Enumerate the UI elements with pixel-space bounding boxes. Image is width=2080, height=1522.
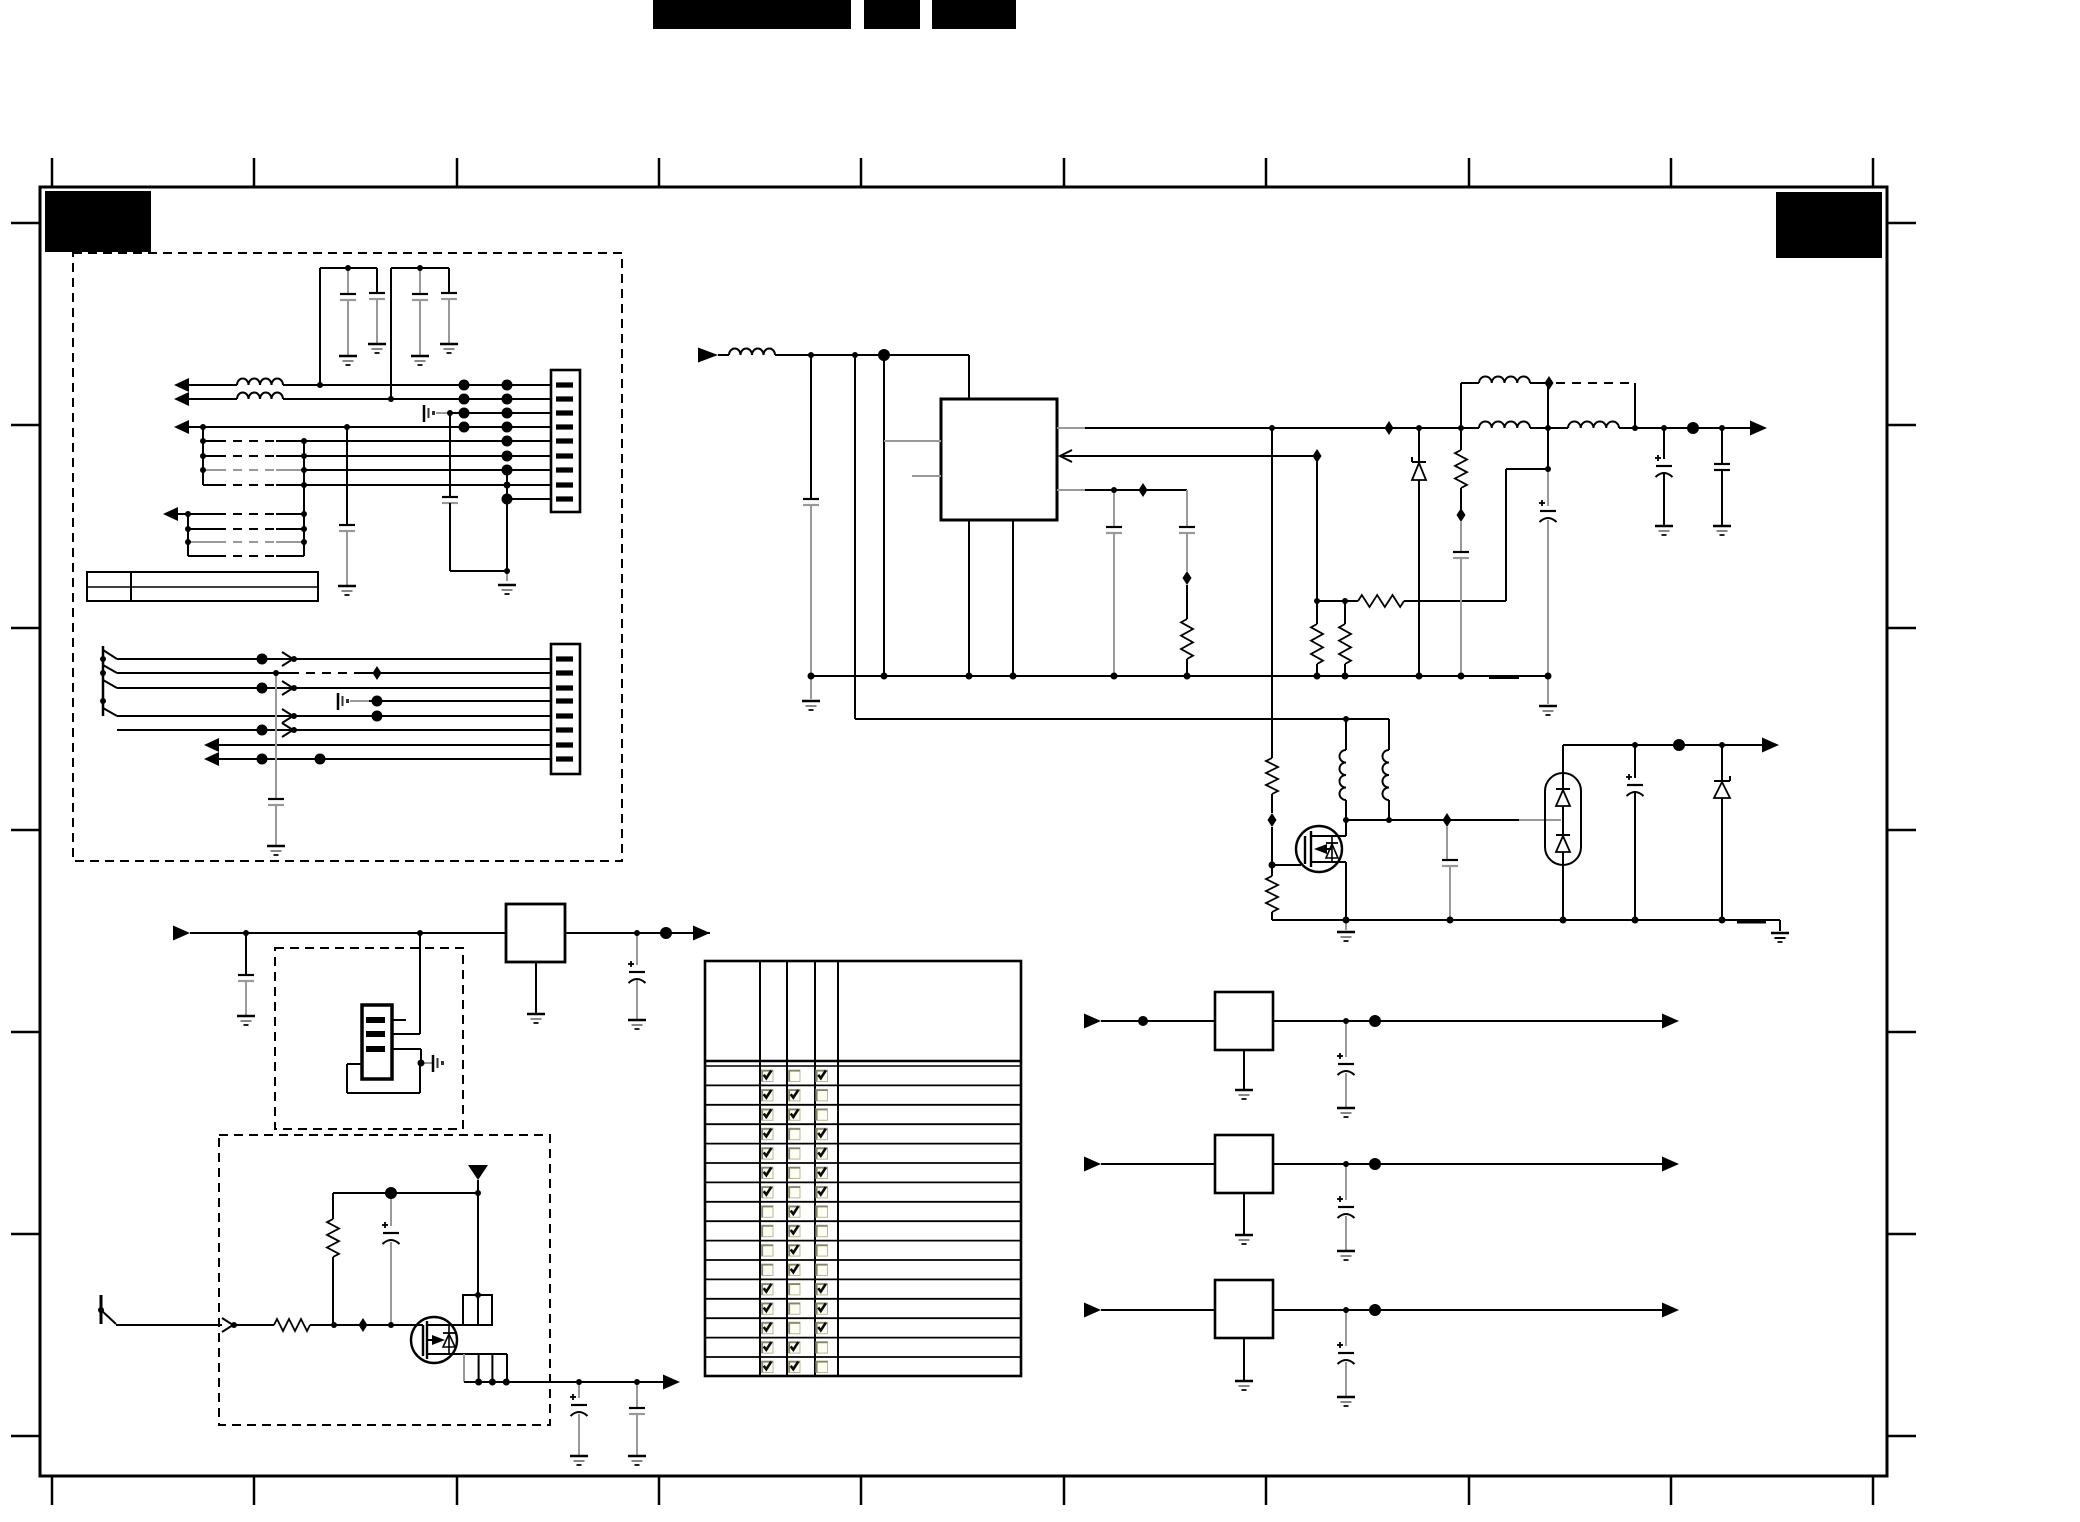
regulator reg5v box [1215, 992, 1273, 1050]
keypad pin1 stub [392, 1019, 406, 1021]
node row19 [257, 725, 268, 736]
inductor L-row2 [237, 393, 283, 400]
capacitor C-row3 [449, 413, 451, 497]
tap row18 [282, 709, 293, 723]
node row17 [372, 696, 383, 707]
wire gate link [1271, 827, 1273, 865]
wire U1 feedback [1060, 455, 1317, 457]
resistor R-sig [274, 1319, 310, 1331]
junction mid top [1545, 425, 1551, 431]
node row2 a [459, 394, 470, 405]
Q1 gate wire [1272, 864, 1301, 866]
capacitor C-snub [1460, 522, 1462, 552]
wire row1 [189, 384, 237, 386]
node row21 a [257, 754, 268, 765]
junction reg3v3 cap [1343, 1161, 1349, 1167]
feedback divider drop [1316, 456, 1318, 601]
aux rail wire [855, 718, 1389, 720]
arrow reg1v8-in [1084, 1303, 1101, 1318]
drain rail [1346, 819, 1519, 821]
harness bracket [102, 646, 105, 716]
net diamond snub [1457, 508, 1466, 522]
output rail switch [464, 1381, 663, 1383]
Q1 arrow [1314, 844, 1327, 854]
U3 diode 2 [1556, 834, 1570, 836]
wire reg1v8 input [1101, 1309, 1215, 1311]
ground col507 [506, 571, 508, 581]
wire row3 cap to gnd [450, 570, 507, 572]
chassis ground keypad [421, 1062, 432, 1064]
ground C-reg-in [237, 1015, 255, 1018]
page border frame [40, 187, 1887, 1476]
arrow reg-out [693, 926, 710, 941]
ground C-out2 [1713, 525, 1731, 528]
U1 gnd pins [968, 520, 970, 676]
standby output rail [1563, 744, 1762, 746]
junction sig b [388, 1322, 394, 1328]
wire aux corner [1388, 719, 1390, 750]
ground C-reg5v [1337, 1107, 1355, 1110]
net diamond drain [1443, 813, 1452, 827]
chassis ground row3 [423, 405, 426, 422]
node row1 a [459, 380, 470, 391]
arrow reg3v3-out [1662, 1157, 1679, 1172]
Q1 channel bar [1310, 831, 1312, 867]
wire row6 dashed [203, 455, 217, 457]
ground cap C-B1 [411, 355, 429, 358]
wire cap-bank A drop [319, 268, 321, 385]
bus vertical mid rows [303, 441, 305, 556]
node reg5v out [1369, 1015, 1381, 1027]
ground cap C-A2 [368, 343, 386, 346]
capacitor C-out2 [1721, 428, 1723, 464]
capacitor C-out1 [1663, 428, 1665, 459]
node row1 b [502, 380, 513, 391]
net diamond Lf [1545, 376, 1554, 390]
capacitor C-stby [1634, 745, 1636, 778]
bus stub vertical rows4-8 [202, 427, 204, 485]
junction fbdiv [1314, 598, 1320, 604]
junction stby diode [1719, 742, 1725, 748]
wire U1 output [1057, 427, 1085, 429]
inductor L-f3 [1568, 422, 1619, 429]
node row7 [502, 465, 513, 476]
ground C-sw1 [570, 1455, 588, 1458]
arrow psu-in [698, 348, 718, 363]
wire row18 [117, 715, 551, 717]
pin table box [87, 572, 318, 601]
title block redaction bar 1 [653, 0, 851, 29]
arrow switch-out [663, 1375, 680, 1390]
primary ground bus [811, 675, 1548, 677]
junction row12 [185, 539, 191, 545]
junction row11 r [301, 526, 307, 532]
wire reg5v input [1101, 1020, 1215, 1022]
wire psu into IC [968, 355, 970, 399]
capacitor C-B1 [419, 268, 421, 294]
node psu c [878, 349, 890, 361]
capacitor C-A2 [376, 268, 378, 293]
filter tap up [1460, 383, 1462, 428]
junction row11 [185, 526, 191, 532]
resistor R-fb2 [1344, 601, 1346, 624]
title block redaction bar 3 [932, 0, 1016, 29]
signal wire [116, 1324, 222, 1326]
ground reg5v [1243, 1050, 1245, 1089]
wire row15 [117, 672, 276, 674]
node row9 [502, 494, 513, 505]
regulator reg3v3 box [1215, 1135, 1273, 1193]
tap signal [222, 1318, 233, 1332]
title block redaction bar 2 [864, 0, 920, 29]
junction gate [1269, 862, 1276, 869]
Q1 drain stub [1311, 835, 1346, 837]
junction row10 [185, 511, 191, 517]
snubber branch [1460, 428, 1462, 450]
wire row3 [450, 412, 551, 414]
net diamond gate [1268, 813, 1277, 827]
keypad pin bar 2 [366, 1031, 385, 1037]
wire row21 [219, 758, 551, 760]
net diamond cs2 [1183, 571, 1192, 585]
wire supply drop [477, 1180, 479, 1193]
wire reg input [190, 932, 506, 934]
capacitor C-reg5v [1345, 1021, 1347, 1057]
capacitor C-reg-out [636, 933, 638, 965]
node row6 [502, 451, 513, 462]
wire aux drop [854, 355, 856, 719]
U1 feedback arrowhead [1060, 450, 1072, 462]
U3 diode 1 [1556, 788, 1570, 790]
arrow reg5v-in [1084, 1014, 1101, 1029]
branch cs right [1186, 490, 1188, 527]
mosfet Q2 circle [411, 1317, 457, 1363]
capacitor C-vcc [1547, 469, 1549, 506]
ground cap C-row4 [338, 585, 356, 588]
Q1 gate bar [1304, 836, 1306, 864]
node row14 [257, 654, 268, 665]
junction Lf top [1458, 425, 1464, 431]
wire T1 prim top [1345, 719, 1347, 750]
arrow psu-out [1750, 421, 1767, 436]
arrow row2 out [174, 392, 189, 406]
wire row20 [219, 744, 551, 746]
ground cap C-B2 [440, 343, 458, 346]
wire U1 cs pin [1057, 489, 1085, 491]
junction keypad gnd [418, 1060, 425, 1067]
arrow row4 out [174, 420, 189, 434]
ground bus2 corner [1771, 932, 1789, 935]
U1 left pin vcc [884, 440, 941, 442]
input stub [100, 1295, 103, 1324]
node row3 a [459, 408, 470, 419]
capacitor C-cs [1113, 490, 1115, 527]
node row2 b [502, 394, 513, 405]
resistor R-g1 [1266, 758, 1278, 794]
inductor L-f2 [1479, 422, 1530, 429]
optocoupler U3 body [1545, 773, 1581, 865]
Q2 source stub [427, 1353, 449, 1355]
wire row19 [117, 729, 551, 731]
junction outcap1 [1661, 425, 1667, 431]
mosfet Q1 circle [1296, 826, 1342, 872]
junction row7 r [301, 467, 307, 473]
capacitor C-sw2 [636, 1382, 638, 1408]
bus junction dots [808, 673, 1552, 680]
junction col507 gnd [504, 568, 510, 574]
wire row2 [189, 398, 237, 400]
wire reg3v3 input [1101, 1163, 1215, 1165]
inductor L-in [729, 349, 775, 356]
transformer T1 primary winding [1340, 750, 1346, 800]
junction row5 r [301, 438, 307, 444]
wire row8 dashed [203, 484, 217, 486]
capacitor C-reg1v8 [1345, 1310, 1347, 1346]
regulator reg1v8 box [1215, 1280, 1273, 1338]
junction reg out cap [634, 930, 640, 936]
pkg dots [475, 1379, 482, 1386]
inductor L-f1 [1479, 377, 1530, 383]
node cap-bank B [417, 265, 423, 271]
junction psu a [808, 352, 814, 358]
junction reg5v cap [1343, 1018, 1349, 1024]
keypad pin bar 3 [366, 1046, 385, 1052]
tap row19 [282, 723, 293, 737]
wire col507 down [506, 470, 508, 571]
ground reg1v8 [1243, 1338, 1245, 1380]
wire row5 dashed [203, 440, 217, 442]
resistor R-fb1 [1316, 601, 1318, 624]
dashed link Lf [1556, 382, 1635, 384]
wire reg output [565, 932, 710, 934]
junction sig a [331, 1322, 337, 1328]
arrow row20 in [204, 738, 219, 752]
node row3 b [502, 408, 513, 419]
wire row14 [117, 658, 551, 660]
junction reg5v in [1138, 1016, 1148, 1026]
ground C-reg3v3 [1337, 1250, 1355, 1253]
wire row4 [189, 426, 551, 428]
U1 left pin nc [912, 475, 941, 477]
node reg1v8 out [1369, 1304, 1381, 1316]
arrow reg3v3-in [1084, 1157, 1101, 1172]
U3 internal wire [1562, 806, 1564, 836]
junction cs cap [1111, 487, 1117, 493]
node row5 [502, 436, 513, 447]
secondary ground bus [1272, 919, 1766, 921]
U3 wire top [1562, 745, 1564, 790]
net diamond fb [1313, 449, 1322, 463]
wire row16 [117, 687, 551, 689]
node reg3v3 out [1369, 1158, 1381, 1170]
arrow row10 out [163, 507, 178, 521]
ground C-sw2 [628, 1455, 646, 1458]
ground Q1 source [1345, 920, 1347, 930]
connector CN1 pins [556, 382, 573, 501]
zener D-z [1418, 428, 1420, 462]
bus2 junction dots [1343, 917, 1726, 924]
node psu out [1687, 422, 1699, 434]
package box upper [463, 1295, 492, 1325]
junction sw cap1 [576, 1379, 582, 1385]
node row8 [504, 482, 511, 489]
wire keypad drop [419, 933, 421, 1034]
wire after resistor [310, 1324, 423, 1326]
keypad pin3 wire [392, 1048, 421, 1050]
arrow row1 out [174, 378, 189, 392]
Q1 source stub [1311, 861, 1346, 863]
ground U2 [535, 962, 537, 1013]
arrow reg-in [173, 926, 190, 941]
connector CN2 body [551, 644, 580, 774]
Q1 body diode [1331, 836, 1333, 863]
junction supply [475, 1190, 481, 1196]
capacitor C-A1 [347, 268, 349, 294]
pwm controller U1 [941, 399, 1057, 520]
Q2 arrow [432, 1335, 445, 1345]
dashed enclosure connector section [73, 253, 622, 861]
wire cap-bank B drop [390, 268, 392, 399]
wire reg1v8 output [1273, 1309, 1662, 1311]
junction pkg top [475, 1292, 481, 1298]
capacitor C-reg-in [245, 933, 247, 975]
connector CN2 pins [556, 656, 573, 761]
capacitor C-B2 [448, 268, 450, 293]
junction row12 r [301, 539, 307, 545]
wire vcc drop [883, 355, 885, 676]
bus stub vertical rows10-13 [187, 514, 189, 556]
wire row9 [507, 498, 551, 500]
junction aux winding [1343, 716, 1349, 722]
capacitor C-sw1 [578, 1382, 580, 1398]
net diamond cs [1139, 483, 1148, 497]
junction row8 r [301, 482, 307, 488]
node cap-bank A [345, 265, 351, 271]
wire to resistor [236, 1324, 274, 1326]
junction row3 [447, 410, 453, 416]
wire row12 [188, 541, 217, 543]
node row21 b [315, 754, 326, 765]
node row16 [257, 683, 268, 694]
wire row13 [188, 555, 217, 557]
junction row4 left [200, 424, 206, 430]
net diamond out [1385, 421, 1394, 435]
settings table checkboxes [762, 1070, 828, 1373]
wire row11 [188, 528, 217, 530]
junction row7 l [200, 467, 206, 473]
wire reg5v output [1273, 1020, 1662, 1022]
junction stby cap [1632, 742, 1638, 748]
zone label redaction top-left [45, 191, 151, 252]
Q2 gate bar [422, 1325, 424, 1356]
node bias cap [385, 1187, 397, 1199]
node row4 a [459, 422, 470, 433]
junction sec winding [1386, 817, 1392, 823]
vcc rail drop [1547, 383, 1549, 469]
junction sw cap2 [634, 1379, 640, 1385]
junction reg1v8 cap [1343, 1307, 1349, 1313]
junction row15 [273, 670, 279, 676]
capacitor C-row4 [346, 427, 348, 525]
resistor R-bias [332, 1193, 334, 1219]
junction row5 l [200, 438, 206, 444]
junction row6 r [301, 453, 307, 459]
junction row2 [388, 396, 394, 402]
ground C-out1 [1655, 525, 1673, 528]
junction keypad drop [417, 930, 423, 936]
wire cap-bank B top [391, 267, 449, 269]
capacitor C-row15 [275, 673, 277, 799]
keypad pin2 wire [392, 1033, 420, 1035]
junction outcap2 [1719, 425, 1725, 431]
gate divider drop [1271, 428, 1273, 758]
arrow reg1v8-out [1662, 1303, 1679, 1318]
junction out sec [1269, 425, 1275, 431]
junction snub top [1632, 425, 1638, 431]
wire fb up [1505, 469, 1507, 601]
arrow reg5v-out [1662, 1014, 1679, 1029]
junction zener top [1416, 425, 1422, 431]
wire reg3v3 output [1273, 1163, 1662, 1165]
tap row14 [282, 652, 293, 666]
wire fb row [1317, 600, 1358, 602]
node row4 b [502, 422, 513, 433]
Q2 drain stub [427, 1324, 463, 1326]
zone label redaction top-right [1776, 192, 1882, 258]
ground bus left [810, 676, 812, 699]
junction row4 cap [344, 424, 350, 430]
junction row6 l [200, 453, 206, 459]
junction row1 [317, 382, 323, 388]
capacitor C-drain [1446, 827, 1448, 860]
resistor R-fb3 [1358, 595, 1404, 607]
wire cap-bank A top [320, 267, 377, 269]
transformer T1 secondary winding [1383, 750, 1389, 800]
ground bus right [1547, 676, 1549, 704]
capacitor C-in [810, 355, 812, 499]
junction drain line [1343, 817, 1349, 823]
junction reg cap [243, 930, 249, 936]
inductor L-row1 [237, 379, 283, 386]
ground cap C-A1 [339, 355, 357, 358]
arrow stby-out [1762, 738, 1779, 753]
junction row10 r [301, 511, 307, 517]
net diamond row15 [373, 666, 382, 680]
wire T1 sec bottom [1388, 800, 1390, 820]
ground C-reg-out [628, 1019, 646, 1022]
Q2 body diode [448, 1325, 450, 1354]
bias rail [333, 1192, 478, 1194]
dashed enclosure keypad [275, 948, 463, 1129]
wire psu input [718, 354, 729, 356]
net diamond sig [359, 1318, 368, 1332]
connector CN1 body [551, 370, 580, 512]
chassis ground row17 [337, 693, 340, 710]
node stby out [1673, 739, 1685, 751]
wire row7 dashed [203, 469, 217, 471]
Q2 channel bar [426, 1321, 428, 1359]
dashed enclosure switch section [219, 1135, 550, 1425]
regulator U2 box [506, 904, 565, 962]
ground C-row15 [267, 845, 285, 848]
capacitor C-bias [390, 1193, 392, 1226]
wire row10 [178, 513, 188, 515]
settings table grid [705, 961, 1021, 1376]
keypad pin4 loop [347, 1063, 362, 1065]
junction fb mid [1545, 466, 1551, 472]
keypad pin bar 1 [366, 1017, 385, 1023]
ground reg3v3 [1243, 1193, 1245, 1234]
